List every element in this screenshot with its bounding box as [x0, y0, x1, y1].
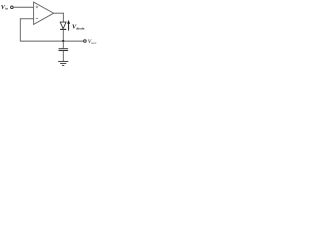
wire feedback to - input: [20, 18, 34, 20]
label Vdiode: [72, 23, 85, 30]
wire node to capacitor: [62, 41, 64, 48]
wire output down to diode: [62, 13, 64, 22]
junction node dot: [62, 40, 64, 42]
op-amp - pin label: [36, 17, 39, 19]
op-amp + pin label: [36, 6, 39, 9]
arrow Vdiode: [67, 20, 70, 31]
node Vout label: [88, 39, 97, 45]
terminal Vin: [11, 6, 14, 9]
svg-text:OUT: OUT: [91, 42, 97, 45]
node Vin label: [1, 4, 9, 11]
wire diode to node: [62, 29, 64, 41]
terminal Vout: [84, 40, 87, 43]
diode D1: [60, 22, 66, 29]
svg-text:in: in: [5, 6, 8, 10]
wire op-amp output: [54, 12, 64, 14]
op-amp U1: [34, 2, 54, 24]
wire output rail horizontal: [20, 40, 84, 42]
capacitor C1: [59, 49, 69, 51]
wire Vin to op-amp + input: [14, 6, 34, 8]
wire capacitor to ground: [62, 51, 64, 61]
wire feedback vertical: [19, 18, 21, 41]
svg-text:diode: diode: [76, 27, 85, 31]
ground: [58, 61, 68, 65]
